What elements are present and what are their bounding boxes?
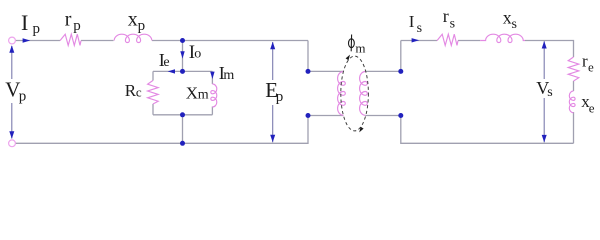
resistor r_e [568, 57, 579, 81]
arrowhead V_p down [9, 131, 14, 139]
label background E_p [263, 80, 283, 105]
junction dot secondary bottom [398, 113, 403, 118]
svg-text:x: x [128, 9, 138, 31]
resistor r_p [60, 34, 81, 45]
svg-text:p: p [33, 21, 41, 37]
svg-text:s: s [547, 85, 552, 100]
wire top rail secondary: x_s to load corner [525, 41, 574, 58]
terminal circle bottom left [9, 140, 16, 147]
svg-text:s: s [417, 21, 422, 36]
flux ellipse phi_m [341, 56, 369, 131]
svg-text:e: e [588, 60, 594, 75]
svg-text:R: R [125, 81, 137, 100]
svg-text:x: x [503, 7, 512, 27]
junction dot bottom rail [180, 141, 185, 146]
arrowhead I_e [168, 69, 175, 73]
svg-text:I: I [21, 10, 28, 35]
wire secondary step top [365, 41, 400, 72]
svg-text:m: m [223, 68, 234, 83]
arrowhead I_s [412, 38, 420, 42]
svg-text:m: m [198, 88, 209, 103]
wire shunt bottom bar [153, 114, 212, 116]
wire magnetizing feed top [182, 41, 184, 72]
junction dot primary bottom [306, 113, 311, 118]
junction dot top rail [180, 38, 185, 43]
resistor r_s [437, 34, 458, 45]
junction dot secondary top [398, 69, 403, 74]
arrow V_s shaft [543, 41, 545, 142]
svg-text:c: c [136, 85, 142, 100]
label background V_p [4, 79, 26, 103]
svg-text:o: o [194, 47, 201, 62]
svg-text:e: e [163, 55, 169, 70]
wire top rail primary: terminal to r_p [16, 40, 61, 42]
svg-text:e: e [589, 100, 595, 115]
flux arrowhead top [346, 55, 350, 61]
svg-text:p: p [73, 18, 81, 34]
arrowhead V_p up [9, 45, 14, 53]
arrowhead I_p [23, 38, 31, 42]
wire bottom rail primary [16, 116, 309, 144]
svg-text:p: p [276, 89, 284, 105]
svg-text:s: s [450, 16, 455, 31]
inductor x_s [480, 34, 525, 42]
inductor x_p [114, 34, 152, 42]
svg-text:r: r [65, 9, 72, 31]
wire primary step top [308, 41, 343, 72]
wire top rail secondary: step to r_s [401, 40, 437, 42]
arrowhead I_m [210, 72, 214, 79]
svg-text:I: I [409, 12, 415, 31]
wire Xm stubs [211, 71, 213, 114]
junction dot shunt top [180, 69, 185, 74]
wire secondary winding bottom lead [365, 115, 400, 117]
svg-text:r: r [443, 6, 449, 26]
transformer primary winding [338, 72, 346, 116]
svg-text:p: p [138, 18, 146, 34]
wire top rail primary: x_p to step corner [152, 40, 308, 42]
inductor X_m [211, 84, 217, 107]
junction dot shunt bottom [180, 112, 185, 117]
flux arrowhead bottom [359, 127, 363, 133]
arrowhead V_s up [542, 41, 547, 49]
wire x_e bottom stub [573, 112, 575, 143]
wire bottom rail secondary [401, 116, 574, 144]
resistor R_c [148, 81, 159, 105]
wire shunt top bar [153, 70, 212, 72]
wire Rc stubs [152, 71, 154, 114]
svg-text:s: s [512, 17, 517, 32]
arrow E_p shaft [272, 42, 274, 142]
arrow V_p shaft [11, 46, 13, 139]
wire magnetizing feed bottom [182, 115, 184, 144]
transformer secondary winding [360, 72, 368, 116]
wire top rail primary: r_p to x_p [81, 40, 114, 42]
arrowhead I_o [180, 51, 184, 58]
inductor x_e [569, 91, 575, 113]
junction dot primary top [306, 69, 311, 74]
wire primary winding bottom lead [308, 115, 343, 117]
arrowhead E_p down [270, 135, 275, 143]
label phi_m (phi drawn as shape) [349, 39, 355, 48]
terminal circle top left [9, 37, 16, 44]
svg-text:m: m [355, 41, 365, 56]
svg-text:p: p [19, 89, 27, 105]
svg-text:X: X [186, 83, 198, 102]
arrowhead E_p up [270, 42, 275, 50]
label background V_s [534, 79, 555, 98]
wire top rail secondary: r_s to x_s [458, 40, 480, 42]
arrowhead V_s down [542, 135, 547, 143]
wire re-xe stub [573, 81, 575, 91]
